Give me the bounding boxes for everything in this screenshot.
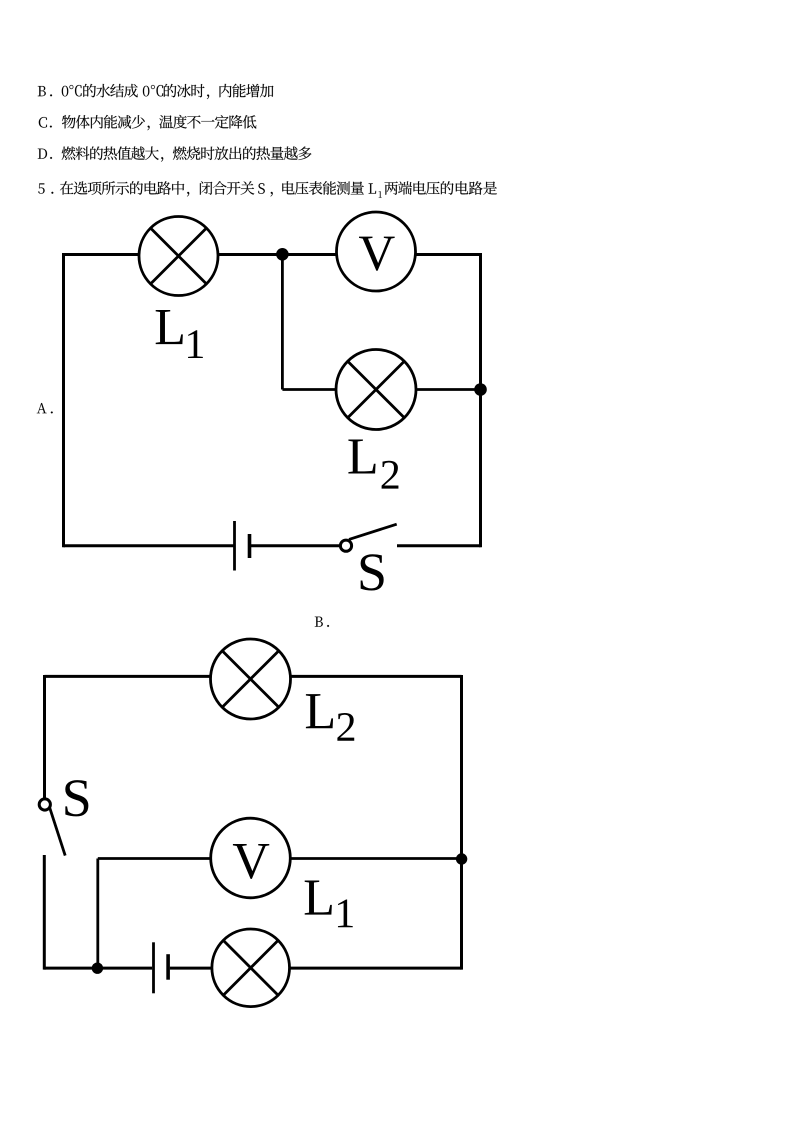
text line D (38, 146, 312, 161)
switch S lever arm (circuit B) (50, 807, 66, 855)
text line C (39, 115, 257, 130)
lamp L1 (circuit B, bottom) (212, 929, 290, 1007)
junction node dot (circuit B, bottom left) (92, 963, 103, 974)
option label B. (315, 617, 329, 627)
battery cell (circuit B): short negative plate (166, 954, 170, 980)
wire: circuit A parallel branch horizontal through L2 (282, 388, 480, 391)
label S (circuit B) (65, 780, 88, 816)
lamp L2 (circuit B) (211, 639, 291, 719)
lamp L1 (circuit A) (139, 217, 218, 296)
wire: circuit A switch to right corner (397, 544, 481, 547)
option label A. (37, 403, 53, 413)
wire: circuit A parallel branch vertical from junction (281, 255, 284, 390)
label L2 (circuit B) (306, 694, 333, 728)
switch S lever arm (circuit A) (349, 524, 397, 539)
voltmeter V (circuit B) (211, 818, 291, 898)
wire: circuit B bottom lamp to right corner (250, 967, 462, 970)
wire: circuit B battery to lamp (170, 967, 250, 970)
junction node dot (circuit A, top between L1 and V) (276, 248, 289, 261)
wire: circuit B right vertical (460, 675, 463, 970)
lamp L2 (circuit A) (336, 350, 416, 430)
subscript 1 of L1 in question (379, 191, 382, 198)
battery cell (circuit A): short negative plate (248, 534, 252, 558)
wire: circuit A right vertical (479, 253, 482, 547)
wire: circuit B left vertical upper (to switch) (43, 675, 46, 798)
wire: circuit B voltmeter branch vertical stub down to bottom node (96, 859, 99, 969)
wire: circuit A bottom left segment to battery (64, 544, 234, 547)
wire: circuit B top through L2 (45, 675, 462, 678)
wire: circuit B voltmeter branch horizontal (98, 857, 462, 860)
wire: circuit A left vertical (62, 253, 65, 547)
label L2 (circuit A) (348, 439, 375, 473)
wire: circuit A battery to switch (251, 544, 340, 547)
label V of voltmeter (circuit A) (359, 237, 395, 271)
label L1 (circuit B) (305, 881, 332, 915)
text line B (38, 84, 274, 99)
junction node dot (circuit A, right on L2 branch) (474, 383, 487, 396)
label L1 (circuit A) (156, 310, 183, 344)
switch S pivot circle (circuit B) (39, 799, 50, 810)
label S (circuit A) (361, 554, 384, 590)
wire: circuit B bottom from left corner to battery (44, 967, 152, 970)
switch S pivot circle (circuit A) (340, 540, 351, 551)
text line question 5 (38, 181, 497, 196)
junction node dot (circuit B, right on V branch) (456, 853, 467, 864)
label V of voltmeter (circuit B) (233, 844, 269, 879)
wire: circuit A top (node between L1, V branch) (64, 253, 481, 256)
wire: circuit B left vertical lower (from switch to bottom) (43, 855, 46, 970)
battery cell (circuit B): long positive plate (152, 942, 155, 993)
battery cell (circuit A): long positive plate (233, 521, 236, 571)
voltmeter V (circuit A) (337, 212, 416, 291)
